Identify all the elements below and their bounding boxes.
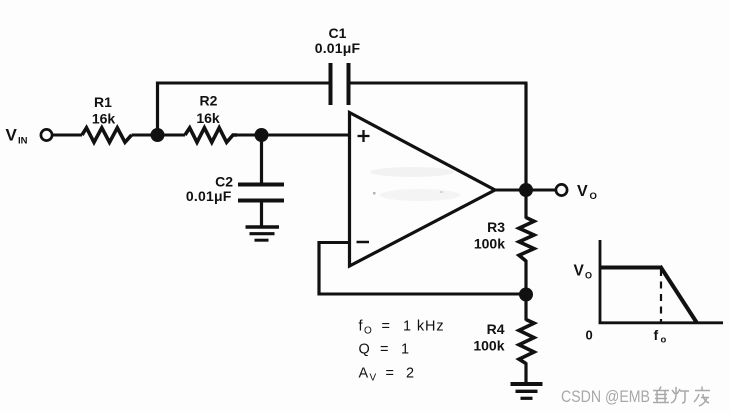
op-amp U1 (350, 113, 496, 267)
svg-text:16k: 16k (196, 110, 220, 126)
svg-text:16k: 16k (92, 111, 116, 127)
svg-text:R2: R2 (200, 93, 218, 109)
graph dashed line at fo (660, 269, 662, 322)
svg-text:R1: R1 (94, 94, 112, 110)
node B junction after R2 (255, 128, 269, 142)
wire top rail left segment to C1 (156, 82, 329, 85)
svg-text:R3: R3 (487, 219, 505, 235)
wire node B down to C2 (260, 137, 263, 183)
svg-text:1: 1 (401, 342, 409, 358)
svg-text:=: = (382, 319, 390, 335)
wire node C to R4 (524, 295, 527, 321)
graph response flat segment (600, 266, 661, 270)
graph x axis (599, 321, 723, 324)
wire corner down to output node (524, 83, 527, 190)
svg-text:o: o (661, 335, 667, 346)
svg-text:f: f (654, 327, 659, 343)
node C junction (519, 288, 533, 302)
svg-text:0.01μF: 0.01μF (186, 188, 232, 204)
op-amp plus pin mark (358, 130, 370, 142)
node VIN terminal (41, 129, 52, 140)
resistor R4 (519, 320, 534, 364)
wire feedback bottom horizontal to node C (318, 293, 527, 296)
wire R3 to node C (524, 260, 527, 295)
wire output node to R3 (524, 190, 527, 219)
svg-text:A: A (359, 366, 369, 382)
svg-text:O: O (585, 271, 592, 281)
svg-text:V: V (6, 126, 18, 145)
wire R2 to op-amp plus input through node B (237, 134, 349, 137)
wire node A up to top rail (156, 82, 159, 138)
capacitor C2 (238, 185, 284, 201)
wire VIN to R1 (52, 134, 82, 137)
annotation Av = 2 (359, 366, 415, 384)
svg-text:V: V (574, 263, 585, 280)
wire R4 to ground (524, 363, 527, 384)
wire R1 to R2 through node A (132, 134, 186, 137)
graph y axis (599, 240, 602, 324)
wire C2 to ground (260, 202, 263, 226)
svg-text:2: 2 (406, 366, 414, 382)
svg-text:V: V (577, 183, 588, 200)
annotation fo = 1 kHz (359, 319, 445, 337)
ground below C2 (246, 227, 280, 240)
node OUT junction (519, 183, 533, 197)
graph response rolloff slope (660, 266, 697, 323)
smudge faint erased watermark inside op-amp (370, 167, 460, 201)
svg-text:O: O (364, 326, 372, 337)
wire feedback left vertical (317, 241, 320, 296)
svg-text:0: 0 (586, 328, 593, 343)
op-amp minus pin mark (357, 241, 370, 244)
svg-text:1 kHz: 1 kHz (403, 319, 445, 335)
wire op-amp output to terminal (494, 189, 556, 192)
svg-text:V: V (370, 373, 377, 384)
node VO terminal (556, 184, 567, 195)
wire top rail right segment C1 to corner (351, 82, 528, 85)
wire minus input stub (319, 241, 350, 244)
node A junction after R1 (151, 128, 165, 142)
resistor R3 (519, 218, 534, 262)
label VIN (6, 126, 28, 147)
svg-text:CSDN @EMB: CSDN @EMB (561, 387, 650, 406)
ground below R4 (511, 384, 543, 398)
svg-text:=: = (380, 342, 388, 358)
svg-text:O: O (590, 191, 597, 202)
svg-text:100k: 100k (473, 338, 504, 354)
svg-text:R4: R4 (487, 321, 505, 337)
svg-text:C1: C1 (329, 25, 347, 41)
capacitor C1 (331, 63, 349, 105)
watermark CJK glyphs (653, 387, 710, 407)
graph label VO (574, 263, 593, 281)
graph label fo (654, 327, 667, 346)
annotation Q = 1 (359, 342, 410, 358)
svg-text:100k: 100k (474, 236, 505, 252)
resistor R2 (185, 128, 237, 143)
svg-text:0.01μF: 0.01μF (315, 40, 361, 56)
resistor R1 (82, 128, 132, 143)
label VO (577, 183, 597, 202)
svg-text:=: = (386, 366, 394, 382)
svg-text:IN: IN (18, 136, 28, 147)
svg-text:Q: Q (359, 342, 370, 358)
